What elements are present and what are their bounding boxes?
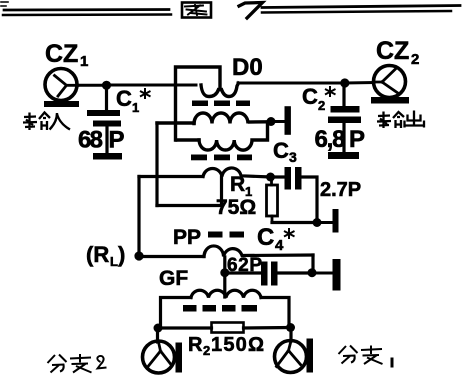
wire GF left side <box>161 298 192 329</box>
label D0 <box>232 54 263 81</box>
resistor R1 <box>267 177 278 223</box>
svg-text:PP: PP <box>173 226 201 249</box>
label C1 <box>116 86 151 115</box>
label 68P <box>78 127 125 154</box>
connector branch2 <box>143 328 183 373</box>
node C (winding to ground) <box>267 117 276 126</box>
node B (C2 junction) <box>340 78 349 87</box>
label 62P <box>227 255 263 276</box>
wire GF right side <box>261 298 289 328</box>
node I (R2 right) <box>286 323 295 332</box>
wire CZ1 to node A <box>77 84 104 87</box>
svg-text:1: 1 <box>132 100 139 115</box>
label output (Chinese) <box>377 111 424 129</box>
label GF <box>159 267 188 290</box>
svg-text:CZ: CZ <box>45 40 78 68</box>
title character 图 <box>182 3 211 18</box>
svg-text:6,8: 6,8 <box>315 126 346 153</box>
label CZ2 <box>376 37 419 68</box>
svg-text:2.7P: 2.7P <box>320 179 361 201</box>
label input (Chinese) <box>23 113 70 131</box>
svg-text:D0: D0 <box>232 54 263 81</box>
wire D0 to node B <box>238 82 342 85</box>
label R1 <box>230 173 252 199</box>
svg-text:3: 3 <box>289 149 297 165</box>
node G (62P right) <box>308 268 317 277</box>
wire PP center tap down to GF <box>223 257 226 297</box>
capacitor 62P <box>225 262 311 286</box>
connector branch1 <box>275 328 314 373</box>
capacitor C3 <box>271 167 318 223</box>
coil above R1 (2 bumps) <box>203 168 267 177</box>
label PP <box>173 226 201 249</box>
svg-text:(R: (R <box>86 242 109 267</box>
wire RL branch to coil <box>139 175 203 178</box>
label branch1 (Chinese) <box>339 346 393 368</box>
transformer PP winding (2 bumps) <box>204 246 313 257</box>
svg-text:GF: GF <box>159 267 188 290</box>
ground bar below C3 <box>333 209 339 233</box>
title rule left <box>1 2 171 15</box>
ground bar right of D0 secondary <box>285 106 291 135</box>
wire node E to ground bar <box>317 221 332 224</box>
wire vertical to RL node <box>137 177 140 257</box>
transformer GF winding (4 bumps) <box>191 290 261 297</box>
label 75ohm <box>216 196 256 219</box>
svg-text:CZ: CZ <box>376 37 409 65</box>
svg-text:62P: 62P <box>227 255 263 276</box>
title numeral 7 <box>239 3 263 19</box>
svg-text:): ) <box>118 242 125 267</box>
core of D0 (dashed) <box>192 101 250 107</box>
label CZ1 <box>45 40 88 70</box>
ground bar under C1 <box>93 153 122 160</box>
label R2 150ohm <box>188 334 265 358</box>
wire left branch vertical <box>155 123 158 206</box>
svg-text:1: 1 <box>80 53 88 70</box>
label 2.7P <box>320 179 361 201</box>
node E (C3 bottom junction) <box>313 218 322 227</box>
svg-text:75Ω: 75Ω <box>216 196 256 219</box>
svg-text:C: C <box>273 138 289 163</box>
label C2 <box>302 84 336 113</box>
wire R1 bottom to node E <box>272 221 315 224</box>
wire node A to D0 coil <box>107 84 197 87</box>
capacitor C1 <box>87 85 121 153</box>
capacitor C2 <box>328 83 361 152</box>
svg-text:P: P <box>109 127 125 154</box>
core of GF (dashed) <box>183 305 257 312</box>
node RL <box>134 251 143 260</box>
core between windings (dashed) <box>191 155 252 161</box>
wire node G to ground bar <box>312 272 332 275</box>
label 6.8P <box>315 126 366 153</box>
resistor R2 <box>158 323 291 333</box>
svg-text:C: C <box>116 86 132 111</box>
label C3 <box>273 138 297 165</box>
wire node B to CZ2 <box>345 81 374 85</box>
transformer D0 secondary winding <box>157 113 268 150</box>
title rule right <box>262 6 460 13</box>
svg-text:P: P <box>349 126 365 153</box>
wire node C to ground bar <box>271 120 284 123</box>
coil center-tap loop <box>157 177 222 206</box>
wire RL node to PP coil <box>139 255 204 258</box>
label branch2 (Chinese) <box>48 354 107 373</box>
node D (R1 / C3 junction) <box>266 173 275 182</box>
ground bar under C2 <box>328 152 359 159</box>
node A (C1 junction) <box>102 81 111 90</box>
label C4 <box>257 224 295 254</box>
svg-text:L: L <box>110 254 118 269</box>
svg-text:2: 2 <box>318 98 325 113</box>
svg-text:2: 2 <box>411 51 419 68</box>
wire PP right down to node G <box>311 255 314 271</box>
svg-text:150Ω: 150Ω <box>211 334 265 356</box>
ground bar right of 62P <box>333 259 341 291</box>
svg-text:2: 2 <box>203 343 210 358</box>
svg-text:4: 4 <box>275 237 284 254</box>
connector CZ1 <box>44 69 79 108</box>
transformer D0 link loop <box>176 67 221 140</box>
core of PP (dashed) <box>208 232 244 238</box>
transformer D0 primary coil (dip) <box>201 83 239 97</box>
svg-text:C: C <box>302 84 318 109</box>
svg-text:R: R <box>188 334 203 356</box>
label RL <box>86 242 125 269</box>
connector CZ2 <box>371 66 409 104</box>
node F (62P left) <box>220 268 229 277</box>
svg-text:R: R <box>230 173 245 196</box>
svg-text:68: 68 <box>78 127 103 154</box>
node H (R2 left) <box>154 324 163 333</box>
svg-text:C: C <box>257 224 274 251</box>
